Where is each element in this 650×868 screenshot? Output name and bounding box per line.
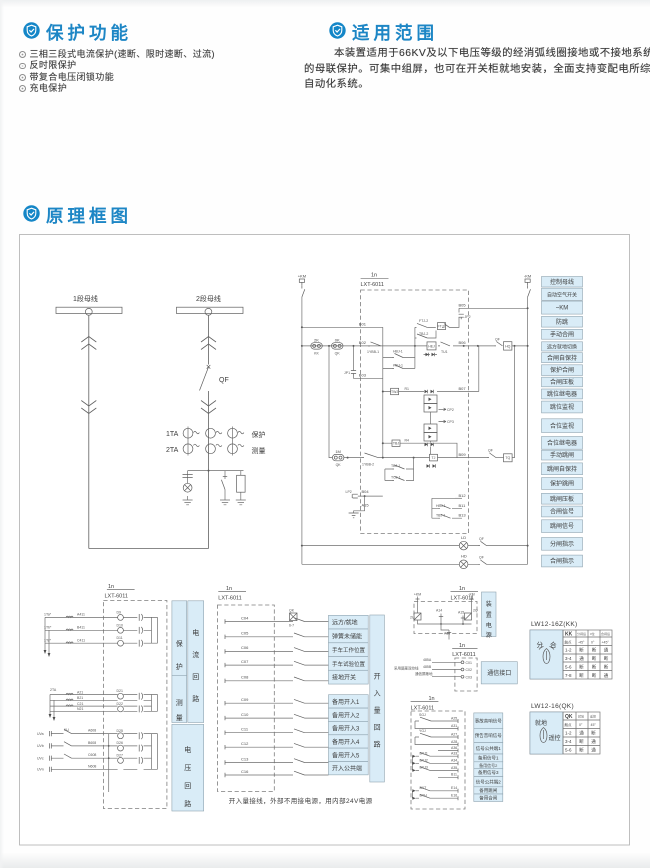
wire JP1 drop: [354, 346, 383, 378]
contact TCJ-1 hold row: [385, 469, 414, 481]
svg-text:断: 断: [579, 672, 584, 679]
signal box 预告音响信号: [474, 728, 503, 742]
svg-text:采用屏蔽双绞线: 采用屏蔽双绞线: [394, 666, 419, 671]
svg-text:备用开入4: 备用开入4: [332, 738, 360, 746]
press contact LP2: [352, 494, 358, 498]
transformer primary circle D9: [118, 615, 124, 621]
function box 自动空气开关: [542, 288, 583, 300]
svg-text:A36: A36: [451, 746, 457, 750]
svg-text:TU1: TU1: [441, 350, 448, 354]
page bottom edge shading: [0, 853, 650, 868]
svg-text:C12: C12: [241, 741, 249, 746]
svg-text:CP2: CP2: [447, 408, 454, 412]
svg-text:分: 分: [537, 640, 544, 649]
arrow CP3: [439, 420, 447, 423]
svg-text:保护合闸: 保护合闸: [550, 366, 574, 374]
svg-text:D26: D26: [117, 741, 123, 745]
switch branch ground: [224, 496, 226, 500]
PT secondary D27: [138, 757, 140, 764]
svg-text:-KM: -KM: [524, 274, 531, 279]
DI contact C16: [294, 771, 305, 775]
DI contact C12: [294, 743, 305, 747]
signal box 信号公共端2: [474, 777, 503, 787]
wire UVc row: [51, 757, 151, 759]
svg-text:R1: R1: [405, 387, 410, 391]
svg-text:弹簧未储能: 弹簧未储能: [332, 632, 362, 640]
svg-text:B11: B11: [451, 773, 457, 777]
DI label box 备用开入1: [329, 695, 369, 708]
svg-text:A15: A15: [458, 611, 464, 615]
contact TBJ-1 signal: [432, 517, 462, 519]
svg-text:KK: KK: [314, 352, 319, 356]
svg-text:0位: 0位: [590, 631, 595, 636]
svg-text:触点: 触点: [565, 640, 573, 645]
page left edge shading: [0, 0, 4, 868]
terminal A33: [457, 754, 459, 758]
CT input wire 2TA row 2: [50, 699, 152, 701]
dashed box current/voltage block: [103, 601, 166, 809]
diodes under HEJ: [426, 354, 431, 356]
svg-text:TBJ: TBJ: [393, 442, 399, 446]
DI row wire C11: [225, 732, 329, 734]
transformer secondary D9: [138, 614, 140, 621]
ground symbol control: [349, 513, 359, 518]
svg-text:QF: QF: [488, 449, 493, 453]
contact FTJ-1: [438, 342, 450, 346]
wire signal loop left: [432, 498, 455, 518]
svg-text:LD: LD: [461, 535, 466, 540]
DI contact C06: [294, 648, 305, 652]
function box 分闸指示: [542, 538, 583, 551]
svg-text:C16: C16: [241, 769, 249, 774]
svg-text:合位监视: 合位监视: [550, 422, 574, 430]
PT secondary D26: [138, 745, 140, 752]
svg-text:C05: C05: [241, 631, 249, 636]
wire group1 left bus + arrows: [45, 617, 49, 653]
svg-text:BYJ2: BYJ2: [420, 759, 428, 763]
junction main rail mid: [414, 345, 416, 347]
contact QF red rail: [478, 560, 487, 564]
svg-text:LXT-6011: LXT-6011: [105, 594, 128, 600]
svg-text:UVn: UVn: [37, 768, 44, 772]
PT primary circle D25: [118, 733, 124, 739]
function box 合位监视: [542, 419, 583, 433]
CT input wire 2TA row 1: [50, 694, 152, 696]
section title 原理框图: [46, 203, 132, 228]
wire trip rail: [344, 457, 487, 459]
DI contact C11: [294, 729, 305, 733]
svg-text:A33: A33: [451, 752, 457, 756]
contact FTJ-2: [415, 326, 436, 328]
wire opto mid drop: [430, 412, 432, 424]
svg-text:手动跳闸: 手动跳闸: [550, 451, 574, 459]
wire branch header: [188, 470, 244, 472]
svg-text:遥控: 遥控: [590, 714, 596, 719]
svg-text:A411: A411: [77, 613, 85, 617]
terminal A34: [457, 761, 459, 765]
svg-text:遥控: 遥控: [549, 734, 561, 742]
CT secondary squiggle: [216, 444, 222, 446]
wire power left drop: [417, 601, 419, 613]
inductor on 1Tb: [66, 629, 73, 630]
press contact JP1: [351, 371, 356, 376]
svg-text:通: 通: [604, 672, 609, 679]
svg-text:1n: 1n: [226, 586, 232, 592]
label box 电压回路: [172, 724, 204, 811]
wire group3 inner bus: [108, 734, 110, 770]
svg-text:通: 通: [579, 730, 584, 737]
svg-text:D11: D11: [117, 636, 123, 640]
svg-text:备用跳闸: 备用跳闸: [479, 787, 497, 794]
wire bus-tie bottom link: [89, 548, 209, 550]
svg-text:A31: A31: [451, 724, 457, 728]
PT primary circle D26: [118, 745, 124, 751]
svg-text:B04: B04: [362, 489, 370, 494]
CT winding circle r1 x188: [183, 428, 193, 438]
svg-text:A27: A27: [451, 732, 457, 736]
svg-text:45°: 45°: [591, 723, 597, 727]
svg-text:手车工作位置: 手车工作位置: [332, 646, 366, 654]
contact below +KM: [302, 286, 305, 297]
svg-text:E16: E16: [451, 794, 457, 798]
svg-text:3-4: 3-4: [565, 739, 572, 744]
svg-text:1YBB-1: 1YBB-1: [367, 350, 379, 354]
svg-text:跳闸自保持: 跳闸自保持: [547, 465, 577, 473]
svg-text:A35: A35: [451, 766, 457, 770]
relay coil HEJ: [427, 342, 436, 350]
contact SGJ loop: [415, 721, 458, 729]
DI row wire C10: [225, 717, 329, 719]
relay box FTJ2: [438, 323, 446, 330]
svg-text:通: 通: [579, 655, 584, 662]
svg-text:合闸压板: 合闸压板: [550, 378, 574, 386]
wire B07 riser: [478, 346, 480, 392]
switch branch wire: [224, 471, 226, 496]
svg-text:5-6: 5-6: [565, 748, 572, 753]
closing coil HQ: [504, 342, 512, 350]
wire bus2 upper segment: [208, 315, 210, 364]
signal box 备用跳闸: [474, 787, 503, 794]
svg-text:D21: D21: [117, 689, 123, 693]
wire -KM right rail: [527, 297, 529, 564]
svg-text:N21: N21: [77, 707, 83, 711]
DI row wire C08: [225, 680, 329, 682]
svg-text:合闸指示: 合闸指示: [550, 557, 574, 565]
svg-text:通: 通: [591, 738, 596, 745]
terminal C01: [461, 661, 464, 664]
terminal A25: [457, 719, 459, 723]
junction bus2/branch: [208, 470, 210, 472]
transformer secondary D22: [138, 706, 140, 713]
DI row wire C16: [225, 774, 329, 776]
lamp branch ground: [187, 496, 189, 500]
svg-text:1n: 1n: [108, 584, 114, 590]
signal box 备用信号1: [474, 754, 503, 762]
signal box 备用信号2: [474, 762, 503, 769]
CT secondary squiggle: [216, 431, 222, 433]
svg-text:UVc: UVc: [37, 756, 44, 760]
signal box 事故音响信号: [474, 713, 503, 728]
wire QK riser: [329, 346, 332, 458]
svg-text:A14: A14: [436, 609, 442, 613]
contact 2Q: [465, 613, 472, 620]
svg-text:0K: 0K: [335, 337, 340, 342]
svg-text:LXT-6011: LXT-6011: [218, 596, 241, 602]
section title 保护功能: [46, 20, 132, 45]
busbar 1: [56, 307, 122, 313]
switch 2K capsule: [311, 343, 323, 349]
terminal E14: [457, 789, 459, 793]
svg-text:B07: B07: [459, 386, 467, 391]
opto coupler CP3 body: [424, 424, 437, 433]
relay coil TWJ: [391, 388, 399, 394]
svg-text:C01: C01: [466, 661, 472, 665]
isolator chevrons bus1 lower: [81, 401, 96, 407]
svg-text:手车试验位置: 手车试验位置: [332, 660, 366, 668]
section icon: shield (principle diagram): [23, 205, 40, 222]
function box 合闸压板: [542, 377, 583, 387]
label box 通信接口: [481, 662, 517, 684]
signal box 信号公共端1: [474, 743, 503, 755]
busbar 2 tap circle: [205, 308, 212, 315]
terminal C03: [461, 675, 464, 678]
svg-text:B411: B411: [77, 626, 85, 630]
svg-text:C21: C21: [77, 702, 83, 706]
svg-text:FTJ-2: FTJ-2: [419, 319, 428, 323]
terminal A31: [457, 727, 459, 731]
svg-text:通: 通: [591, 747, 596, 754]
wire B01 rail: [302, 326, 383, 328]
svg-text:HEJ: HEJ: [428, 344, 435, 348]
svg-text:HQ: HQ: [505, 344, 511, 348]
svg-text:B01: B01: [359, 321, 367, 326]
svg-text:断: 断: [592, 647, 597, 654]
svg-text:C09: C09: [241, 697, 249, 702]
svg-text:B12: B12: [459, 493, 467, 498]
svg-text:QF: QF: [479, 537, 484, 541]
svg-text:JP2: JP2: [465, 315, 471, 319]
function box 跳闸压板: [542, 493, 583, 504]
section icon: shield (application scope): [329, 22, 346, 39]
svg-text:接地开关: 接地开关: [332, 674, 356, 682]
svg-text:D22: D22: [117, 702, 123, 706]
svg-text:3-4: 3-4: [565, 656, 572, 661]
contact BYJ2: [412, 762, 415, 765]
svg-text:信号公共端2: 信号公共端2: [476, 778, 501, 785]
terminal A28: [457, 743, 459, 747]
function box 跳位继电器: [542, 389, 583, 399]
svg-text:QK: QK: [335, 352, 341, 356]
inductor on 1Ta: [66, 616, 73, 617]
terminal cap UVn: [50, 767, 52, 772]
contact YGJ loop: [415, 737, 458, 745]
knife switch UVb: [64, 742, 72, 746]
opto coupler body2: [424, 404, 437, 413]
DI contact C10: [294, 714, 305, 718]
svg-text:备用开入1: 备用开入1: [332, 698, 360, 706]
svg-text:跳闸压板: 跳闸压板: [550, 495, 574, 503]
svg-text:N608: N608: [88, 764, 96, 768]
wire 485B: [432, 669, 461, 671]
svg-text:1Ta*: 1Ta*: [44, 613, 52, 617]
svg-text:2TA: 2TA: [50, 688, 57, 692]
svg-text:YGJ: YGJ: [419, 729, 426, 733]
function box 保护合闸: [542, 365, 583, 376]
svg-text:触点: 触点: [565, 722, 573, 727]
PT secondary D25: [138, 732, 140, 739]
svg-text:备用信号3: 备用信号3: [478, 769, 499, 776]
wire UVa row: [51, 733, 151, 735]
wire bus1 vertical feeder: [88, 315, 90, 548]
wire loop right vertical: [414, 346, 416, 369]
svg-text:备用开入3: 备用开入3: [332, 725, 360, 733]
table QK outer + handle cell: [530, 712, 600, 754]
svg-text:QK: QK: [336, 463, 342, 467]
contact 2U: [414, 613, 421, 620]
DI row wire C13: [225, 762, 329, 764]
svg-text:TCJ-1: TCJ-1: [391, 476, 401, 480]
wire TQ riser: [512, 346, 514, 458]
DI contact C05: [294, 633, 305, 637]
DI label box 接地开关: [329, 670, 369, 684]
svg-text:LXT-6011: LXT-6011: [451, 596, 474, 602]
wire shield ground: [432, 676, 461, 678]
dashed box DI block: [218, 605, 275, 792]
wire group1 right bus: [151, 617, 153, 643]
function box 保护跳闸: [542, 478, 583, 490]
contact R5: [442, 324, 449, 328]
wire +KM left rail: [301, 297, 303, 564]
svg-text:断: 断: [604, 655, 609, 662]
svg-text:保护跳闸: 保护跳闸: [550, 480, 574, 488]
DI row wire C04: [225, 621, 329, 623]
wire antipump vertical: [414, 327, 416, 346]
svg-text:断: 断: [592, 655, 597, 662]
contact 1YBB-2: [362, 453, 378, 458]
svg-text:备用信号1: 备用信号1: [478, 755, 499, 762]
svg-text:分闸指示: 分闸指示: [550, 540, 574, 548]
relay coil TJ: [430, 454, 438, 461]
svg-text:开入公共端: 开入公共端: [332, 765, 362, 773]
CT input wire 2TA row 4: [50, 710, 152, 712]
svg-text:A21: A21: [77, 690, 83, 694]
contact below -KM: [528, 286, 531, 297]
svg-text:D27: D27: [117, 753, 123, 757]
diodes TWJ row: [425, 390, 428, 394]
wire green lamp rail: [302, 545, 528, 547]
svg-text:1n: 1n: [371, 273, 377, 279]
DI row wire C07: [225, 664, 329, 666]
svg-text:HD: HD: [461, 554, 467, 559]
svg-text:B13: B13: [459, 513, 467, 518]
svg-text:1-2: 1-2: [565, 648, 572, 653]
svg-text:QK: QK: [289, 609, 295, 613]
svg-text:断: 断: [591, 730, 596, 737]
svg-text:备用合闸: 备用合闸: [479, 795, 497, 802]
transformer secondary D10: [138, 627, 140, 634]
DI label box 备用开入2: [329, 708, 369, 721]
breaker QF open-contact symbol: [207, 365, 211, 369]
svg-text:B06: B06: [459, 340, 467, 345]
table KK outer + handle cell: [530, 630, 612, 679]
svg-text:断: 断: [592, 672, 597, 679]
svg-text:FTJ2: FTJ2: [438, 325, 446, 329]
svg-text:TBJ-2: TBJ-2: [419, 332, 428, 336]
CT input wire 1Tc: [45, 642, 152, 644]
contact TBJ-1 hold row: [385, 458, 414, 469]
DI contact C13: [294, 759, 305, 763]
svg-text:远方就地切换: 远方就地切换: [547, 344, 577, 351]
label box 测量: [172, 675, 187, 722]
junction left rail main row: [301, 345, 303, 347]
contact QF trip rail: [487, 453, 496, 458]
wire group3 right bus: [152, 734, 158, 770]
svg-text:手动合闸: 手动合闸: [550, 330, 574, 338]
rotary handle symbol QK: [540, 728, 547, 743]
svg-text:QF: QF: [479, 556, 484, 560]
svg-text:JP1: JP1: [344, 371, 350, 375]
DI row wire C05: [225, 636, 329, 638]
svg-text:1-2: 1-2: [565, 731, 572, 736]
svg-text:C06: C06: [241, 645, 249, 650]
knife switch UVc: [64, 754, 72, 758]
svg-text:1n: 1n: [429, 696, 435, 702]
svg-text:5-6: 5-6: [565, 665, 572, 670]
switch 0K capsule: [332, 343, 344, 349]
svg-text:防跳: 防跳: [556, 318, 568, 326]
svg-text:跳位监视: 跳位监视: [550, 403, 574, 411]
svg-text:A25: A25: [451, 716, 457, 720]
contact HBJ-1 loop row: [383, 357, 415, 359]
svg-text:B03: B03: [359, 372, 367, 377]
svg-text:B02: B02: [359, 340, 367, 345]
svg-text:A34: A34: [451, 759, 457, 763]
wire 485A: [432, 661, 461, 663]
svg-text:BYJ3: BYJ3: [420, 766, 428, 770]
svg-text:C11: C11: [241, 727, 249, 732]
table QK grid: [563, 712, 588, 754]
svg-text:事故音响信号: 事故音响信号: [475, 717, 502, 724]
svg-text:合闸后: 合闸后: [601, 631, 610, 636]
arrow CP2: [439, 408, 447, 411]
svg-text:备用开入5: 备用开入5: [332, 751, 360, 759]
wire group2 right bus: [152, 695, 158, 712]
inductor on 1Tc: [66, 642, 73, 643]
svg-text:LW12-16(QK): LW12-16(QK): [531, 703, 574, 710]
label box 装置电源: [482, 592, 497, 637]
diagram outer border frame: [20, 235, 630, 846]
contact 1YBB-1: [368, 342, 381, 346]
svg-text:C13: C13: [241, 756, 249, 761]
BYT group bracket: [411, 791, 413, 798]
svg-text:0°: 0°: [591, 641, 595, 645]
wire UVb row: [51, 745, 151, 747]
function box 合闸信号: [542, 506, 583, 517]
svg-text:2Q: 2Q: [473, 609, 478, 613]
wire main rail right part: [453, 345, 494, 347]
function box 手动合闸: [542, 329, 583, 339]
contact BYJ3: [412, 769, 415, 772]
CT input wire 2TA row 3: [50, 705, 152, 707]
DI label box 备用开入3: [329, 721, 369, 734]
function box 合闸自保持: [542, 353, 583, 363]
inductor 2TA row 2: [66, 699, 73, 700]
svg-text:远方/就地: 远方/就地: [332, 619, 358, 627]
DI label box 弹簧未储能: [329, 629, 369, 643]
svg-text:CP3: CP3: [447, 420, 454, 424]
CT input wire 1Tb: [45, 629, 152, 631]
svg-text:信号公共端1: 信号公共端1: [476, 745, 501, 752]
